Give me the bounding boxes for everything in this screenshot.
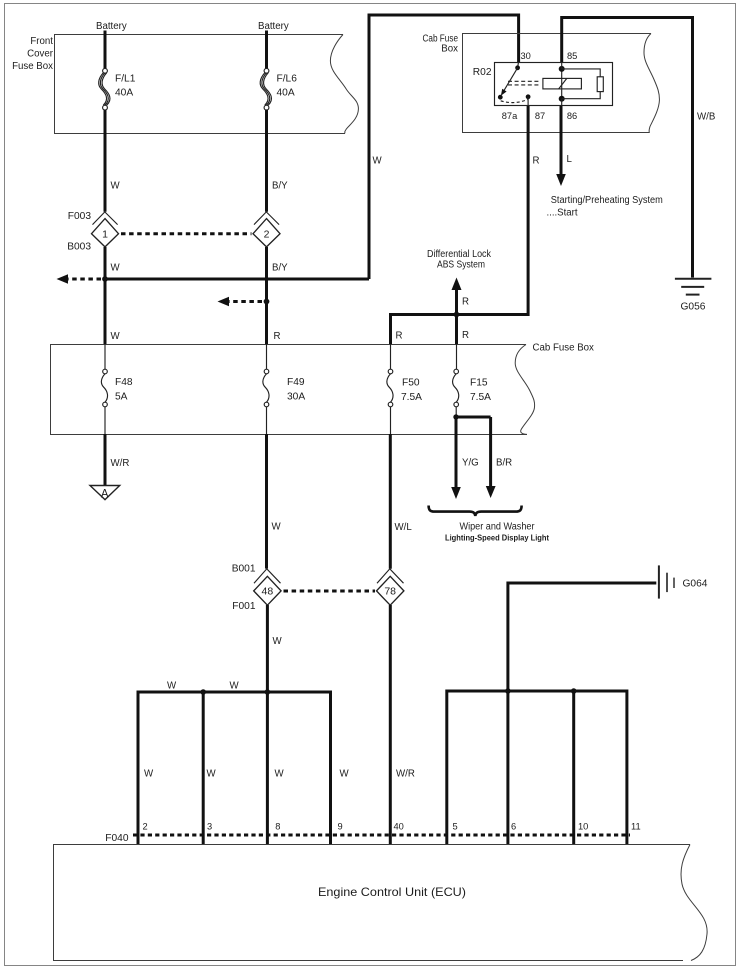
svg-text:Box: Box <box>441 44 458 55</box>
connector B001 half (pin 78 chevron) <box>377 569 404 583</box>
junction node on R rail <box>454 312 460 318</box>
svg-text:W/R: W/R <box>396 769 415 780</box>
junction node on W wire <box>102 276 108 282</box>
arrowhead off-page left 1 <box>57 274 69 283</box>
svg-text:3: 3 <box>207 822 212 832</box>
cab fuse box (top) <box>463 34 660 133</box>
relay pin 86 inside stub <box>561 99 563 106</box>
brace wiper washer group <box>429 506 522 517</box>
dashed off-page wire left at node <box>225 300 262 303</box>
svg-text:Engine Control Unit (ECU): Engine Control Unit (ECU) <box>318 885 466 899</box>
fuse F15 value label <box>470 378 491 404</box>
cab fuse box label <box>423 34 459 55</box>
relay coil center link 85-86 <box>561 69 563 99</box>
wire battery 2 to fuse F/L6 <box>265 31 268 69</box>
connector F003 half (pin 2 chevron) <box>254 212 279 225</box>
relay resistor <box>597 77 603 92</box>
svg-text:7.5A: 7.5A <box>401 392 422 403</box>
svg-text:5: 5 <box>453 822 458 832</box>
svg-text:Battery: Battery <box>258 21 289 32</box>
front cover fuse box <box>55 35 359 134</box>
fuse F50 7.5A <box>387 344 393 434</box>
svg-text:W: W <box>275 769 285 780</box>
fuse F/L1 40A <box>99 68 110 110</box>
relay switch arm arrowhead <box>501 89 507 96</box>
svg-text:Lighting-Speed Display Light: Lighting-Speed Display Light <box>445 533 549 543</box>
svg-text:85: 85 <box>567 51 577 61</box>
svg-text:F003: F003 <box>68 211 92 222</box>
svg-text:Fuse Box: Fuse Box <box>12 61 53 72</box>
svg-text:W: W <box>272 522 282 533</box>
fuse F48 5A <box>101 344 107 434</box>
wire branch to B/R <box>456 416 491 419</box>
wire W/R connector 78 down to ECU pin 40 <box>389 605 392 845</box>
wire ECU pin 10 <box>572 691 575 845</box>
wire ECU bus right group <box>447 691 627 845</box>
ground A triangle <box>90 486 120 501</box>
wire R junction down to fuse F15 <box>455 315 458 345</box>
svg-text:R: R <box>533 156 540 167</box>
wire ECU bus left group <box>138 692 331 845</box>
ECU box <box>54 845 708 961</box>
cab fuse box (middle) <box>51 345 535 435</box>
relay pin 30 entry <box>517 62 520 68</box>
svg-text:B/Y: B/Y <box>272 181 288 192</box>
wire W/B relay pin 85 to ground G056 <box>562 18 693 278</box>
dashed link connector 1 to connector 2 <box>121 232 252 235</box>
connector F040 dashed line <box>133 834 630 837</box>
svg-text:78: 78 <box>384 586 396 598</box>
relay pin 87 inside stub <box>527 97 529 106</box>
svg-text:B001: B001 <box>232 564 256 575</box>
svg-text:R: R <box>396 331 403 342</box>
svg-text:F49: F49 <box>287 377 305 388</box>
svg-text:W: W <box>144 769 154 780</box>
relay switch pivot node <box>515 65 520 70</box>
wire B/Y connector 2 down to cab fuse box <box>265 247 268 344</box>
junction node bus feed <box>265 689 271 695</box>
relay node 85 <box>559 66 565 72</box>
dashed link connector 48 to connector 78 <box>284 590 376 593</box>
svg-text:....Start: ....Start <box>547 208 578 219</box>
svg-text:W: W <box>111 263 121 274</box>
svg-text:W: W <box>273 636 283 647</box>
fuse F/L1 value label <box>115 74 136 99</box>
wire W/R from F48 to ground A <box>104 434 107 486</box>
svg-text:W: W <box>373 156 383 167</box>
relay switch arm <box>504 68 518 91</box>
svg-text:W/B: W/B <box>697 112 715 123</box>
svg-text:R: R <box>462 297 469 308</box>
svg-text:40A: 40A <box>115 88 133 99</box>
svg-text:B/R: B/R <box>496 458 512 469</box>
connector F001 pin 48 diamond <box>254 576 281 605</box>
svg-text:2: 2 <box>264 229 270 241</box>
arrowhead L down <box>556 174 566 186</box>
svg-text:Differential Lock: Differential Lock <box>427 249 491 260</box>
fuse F48 value label <box>115 377 133 403</box>
wire bridge to relay riser <box>105 278 369 281</box>
connector F001 pin 78 diamond <box>377 576 404 605</box>
fuse F50 value label <box>401 378 422 404</box>
svg-text:5A: 5A <box>115 392 128 403</box>
svg-text:87: 87 <box>535 111 545 121</box>
svg-text:ABS System: ABS System <box>437 260 485 271</box>
junction node on B/Y wire <box>264 299 270 305</box>
svg-text:F/L6: F/L6 <box>277 74 298 85</box>
svg-text:6: 6 <box>511 822 516 832</box>
dashed off-page wire left at node <box>64 278 101 281</box>
svg-text:Front: Front <box>30 36 53 47</box>
ground G056 <box>675 279 712 295</box>
connector B003 pin 2 diamond <box>253 219 280 247</box>
svg-text:W: W <box>111 331 121 342</box>
relay contact 87a node <box>498 95 503 100</box>
svg-text:W: W <box>167 681 177 692</box>
svg-text:Cover: Cover <box>27 49 54 60</box>
wire B/R arrow to wiper washer <box>489 417 492 487</box>
arrowhead off-page left 2 <box>218 297 230 306</box>
wire R arrow up to ABS system <box>455 290 458 315</box>
fuse F/L6 40A <box>260 68 271 110</box>
svg-text:48: 48 <box>262 586 274 598</box>
svg-text:1: 1 <box>102 229 108 241</box>
arrowhead B/R down <box>486 486 496 498</box>
wire R relay pin 87 down to junction rail <box>391 106 529 344</box>
svg-text:Wiper and Washer: Wiper and Washer <box>460 522 536 533</box>
wire W connector 1 down to cab fuse box <box>104 247 107 344</box>
junction node bus G064 feed <box>505 688 511 694</box>
svg-text:W/L: W/L <box>395 522 413 533</box>
svg-text:R02: R02 <box>473 67 492 78</box>
arrowhead Y/G down <box>451 487 461 499</box>
svg-text:30A: 30A <box>287 392 305 403</box>
wire ECU pin 3 <box>202 692 205 845</box>
junction node below F15 <box>453 414 458 419</box>
wire L relay pin 86 arrow to starting system <box>560 106 563 175</box>
wire W/L fuse F50 down to connector 78 <box>389 434 392 569</box>
svg-text:R: R <box>274 331 281 342</box>
junction node bus pin 10 <box>571 688 577 694</box>
wire W connector 48 down to ECU bus <box>266 605 269 845</box>
wire Y/G arrow to wiper washer <box>455 417 458 488</box>
connector B001 half (pin 48 chevron) <box>254 569 281 583</box>
svg-text:F15: F15 <box>470 378 488 389</box>
relay pin 85 inside stub <box>561 62 563 69</box>
svg-text:40A: 40A <box>277 88 295 99</box>
fuse F49 value label <box>287 377 305 403</box>
connector F003 half (pin 1 chevron) <box>93 212 118 225</box>
wire W from F/L1 to connector 1 <box>104 110 107 212</box>
svg-text:86: 86 <box>567 111 577 121</box>
svg-text:Battery: Battery <box>96 21 127 32</box>
svg-text:G056: G056 <box>681 302 706 313</box>
svg-text:W: W <box>340 769 350 780</box>
svg-text:9: 9 <box>338 822 343 832</box>
svg-text:R: R <box>462 330 469 341</box>
fuse F49 30A <box>263 344 269 434</box>
label differential lock ABS <box>427 249 491 271</box>
svg-text:Starting/Preheating System: Starting/Preheating System <box>551 195 663 206</box>
svg-text:F001: F001 <box>232 601 256 612</box>
svg-text:F040: F040 <box>105 833 129 844</box>
svg-text:40: 40 <box>394 822 404 832</box>
relay coil <box>543 78 582 89</box>
svg-text:10: 10 <box>578 822 588 832</box>
relay contact 87 node <box>526 94 531 99</box>
svg-text:A: A <box>101 488 109 500</box>
svg-text:2: 2 <box>143 822 148 832</box>
svg-text:W: W <box>207 769 217 780</box>
svg-text:30: 30 <box>521 51 531 61</box>
svg-text:11: 11 <box>631 822 641 832</box>
svg-text:87a: 87a <box>502 111 518 121</box>
junction node bus pin 3 <box>200 689 206 695</box>
relay dashed travel arc 87a-87 <box>501 100 528 103</box>
svg-text:F48: F48 <box>115 377 133 388</box>
label starting system <box>547 195 663 219</box>
wire B/Y from F/L6 to connector 2 <box>265 110 268 212</box>
svg-text:B/Y: B/Y <box>272 263 288 274</box>
svg-text:W: W <box>111 181 121 192</box>
wire W riser to relay pin 30 <box>369 15 519 279</box>
svg-text:F/L1: F/L1 <box>115 74 136 85</box>
svg-text:W/R: W/R <box>111 458 130 469</box>
svg-text:Y/G: Y/G <box>462 458 479 469</box>
relay node 86 <box>559 96 565 102</box>
wire W fuse F49 down to connector 48 <box>265 434 268 569</box>
fuse F15 7.5A <box>453 344 459 415</box>
svg-text:L: L <box>567 154 573 165</box>
relay actuator dashed link <box>508 81 541 85</box>
fuse F/L6 value label <box>277 74 298 99</box>
wire to ground G064 <box>508 583 656 845</box>
ground G064 <box>659 565 674 598</box>
svg-text:F50: F50 <box>402 378 420 389</box>
wire battery 1 to fuse F/L1 <box>104 31 107 69</box>
relay R02 body <box>495 63 613 106</box>
connector B003 pin 1 diamond <box>92 219 119 247</box>
svg-text:G064: G064 <box>683 579 708 590</box>
arrowhead ABS up <box>452 278 462 291</box>
relay resistor branch wire <box>562 69 601 99</box>
svg-text:Cab Fuse Box: Cab Fuse Box <box>533 343 595 354</box>
svg-text:8: 8 <box>275 822 280 832</box>
svg-text:B003: B003 <box>67 242 91 253</box>
svg-text:W: W <box>230 681 240 692</box>
front cover fuse box label <box>12 36 54 72</box>
svg-text:7.5A: 7.5A <box>470 392 491 403</box>
